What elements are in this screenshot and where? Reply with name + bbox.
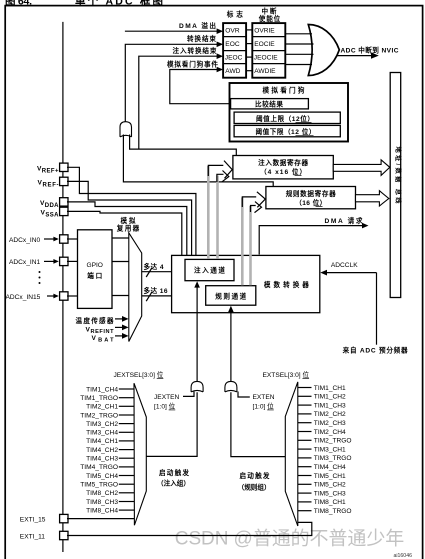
svg-text:TIM3_CH1: TIM3_CH1 [314, 446, 346, 453]
svg-text:TIM1_CH1: TIM1_CH1 [314, 385, 346, 392]
svg-text:TIM3_CH4: TIM3_CH4 [86, 430, 118, 437]
svg-text:中断: 中断 [262, 6, 277, 15]
svg-text:EXTI_11: EXTI_11 [20, 533, 46, 540]
svg-text:启动触发: 启动触发 [159, 468, 189, 477]
ADC interrupt to NVIC arrow [337, 55, 372, 57]
svg-text:EXTSEL[3:0] 位: EXTSEL[3:0] 位 [263, 370, 310, 379]
wire EOC (转换结束) from AWD-gate top to EOC flag [125, 44, 221, 121]
svg-text:TIM1_CH4: TIM1_CH4 [86, 386, 118, 393]
wires GPIO to analog mux [112, 237, 129, 239]
regular data register box 规则数据寄存器 (16 位) [266, 187, 356, 209]
svg-text:多达 16: 多达 16 [144, 286, 168, 295]
injected mux input ticks [119, 389, 134, 510]
wire VREF- to ADC [67, 181, 192, 255]
wire injected mux output to gate [146, 392, 197, 456]
svg-text:复用器: 复用器 [116, 223, 140, 232]
regular channels box 规则通道 [206, 286, 256, 306]
svg-text:TIM1_TRGO: TIM1_TRGO [80, 395, 118, 402]
svg-text:TIM2_CH2: TIM2_CH2 [314, 411, 346, 418]
wide arrow regular register to bus [356, 191, 389, 206]
svg-text:TIM2_CH4: TIM2_CH4 [314, 429, 346, 436]
svg-text:TIM1_CH3: TIM1_CH3 [314, 402, 346, 409]
svg-text:CSDN @普通的不普通少年: CSDN @普通的不普通少年 [175, 528, 404, 550]
wire DMA overrun to OVR [125, 30, 222, 32]
AWD guard gate [120, 122, 132, 137]
wires pins to GPIO [67, 238, 78, 240]
GPIO port box [78, 230, 113, 309]
svg-text:TIM5_CH4: TIM5_CH4 [86, 473, 118, 480]
svg-text:阈值上限（12位）: 阈值上限（12位） [256, 114, 314, 123]
svg-text:温度传感器: 温度传感器 [76, 316, 114, 325]
svg-text:规则通道: 规则通道 [215, 291, 246, 300]
svg-text:端口: 端口 [87, 271, 102, 280]
svg-text:TIM8_TRGO: TIM8_TRGO [314, 508, 352, 515]
svg-text:TIM2_CH1: TIM2_CH1 [86, 404, 118, 411]
svg-text:（16 位）: （16 位） [295, 198, 326, 207]
svg-text:使能位: 使能位 [258, 14, 281, 23]
JEXTEN enable stub [183, 392, 194, 397]
svg-text:注入通道: 注入通道 [194, 266, 225, 275]
svg-text:转换结束: 转换结束 [187, 34, 216, 43]
svg-text:JEXTSEL[3:0] 位: JEXTSEL[3:0] 位 [114, 370, 164, 379]
grey data path injected (wide grey wires) [207, 166, 210, 259]
svg-text:AWDIE: AWDIE [254, 68, 276, 75]
svg-text:EXTI_15: EXTI_15 [20, 516, 46, 523]
svg-text:ADCx_IN15: ADCx_IN15 [6, 294, 41, 301]
svg-text:JEXTEN: JEXTEN [154, 394, 180, 401]
injected data register box 注入数据寄存器 (4 x16 位) [233, 156, 333, 179]
wire gate to injected channels (start trigger) [196, 286, 198, 382]
svg-text:TIM2_CH3: TIM2_CH3 [314, 420, 346, 427]
svg-text:模拟: 模拟 [121, 216, 136, 225]
EXTEN enable stub [238, 392, 250, 398]
svg-text:TIM4_CH4: TIM4_CH4 [314, 464, 346, 471]
svg-text:TIM2_TRGO: TIM2_TRGO [80, 412, 118, 419]
analog watchdog box 模拟看门狗 [230, 83, 349, 142]
wire gate input from regular data register top [123, 135, 273, 187]
svg-text:JEOCIE: JEOCIE [254, 55, 278, 62]
threshold high box 阈值上限 (12位) [234, 112, 340, 123]
svg-text:规则数据寄存器: 规则数据寄存器 [286, 189, 336, 198]
svg-text:TIM8_CH1: TIM8_CH1 [314, 499, 346, 506]
svg-text:TIM5_CH1: TIM5_CH1 [314, 473, 346, 480]
wire gate input from injected data register top [130, 135, 237, 156]
svg-text:ai16046: ai16046 [394, 553, 413, 559]
regular trigger mux [285, 382, 298, 526]
svg-text:OVR: OVR [225, 27, 240, 34]
svg-text:单个 ADC 框图: 单个 ADC 框图 [75, 0, 163, 8]
svg-text:（规则组）: （规则组） [238, 482, 271, 491]
svg-text:TIM1_CH2: TIM1_CH2 [314, 394, 346, 401]
wire EXTI_11 to regular mux [67, 522, 312, 535]
threshold low box 阈值下限 (12 位) [234, 125, 340, 136]
svg-text:EOCIE: EOCIE [254, 41, 275, 48]
address/data bus 地址/数据总线 [390, 73, 401, 298]
svg-text:TIM8_CH3: TIM8_CH3 [86, 499, 118, 506]
svg-text:TIM2_TRGO: TIM2_TRGO [314, 438, 352, 445]
OR gate (interrupt) [308, 25, 339, 76]
svg-text:ADCx_IN0: ADCx_IN0 [9, 237, 40, 244]
svg-text:（注入组）: （注入组） [157, 478, 190, 487]
svg-text:注入转换结束: 注入转换结束 [173, 46, 217, 55]
regular trigger gate EXTEN [225, 381, 237, 392]
svg-text:图 64.: 图 64. [5, 0, 32, 8]
svg-text:EOC: EOC [225, 41, 240, 48]
svg-text:TIM4_CH3: TIM4_CH3 [86, 456, 118, 463]
svg-text:ADC 中断到 NVIC: ADC 中断到 NVIC [341, 46, 399, 55]
wire from ADC prescaler 来自 ADC 预分频器 [376, 273, 378, 345]
pin rail (left vertical line) [62, 22, 64, 552]
svg-text:TIM5_CH2: TIM5_CH2 [314, 482, 346, 489]
svg-text:来自 ADC 预分频器: 来自 ADC 预分频器 [342, 346, 408, 355]
svg-text:JEOC: JEOC [225, 55, 243, 62]
grey data path regular [241, 198, 244, 286]
svg-text:TIM5_TRGO: TIM5_TRGO [80, 482, 118, 489]
svg-text:TIM8_CH2: TIM8_CH2 [86, 490, 118, 497]
injected mux input labels [80, 386, 118, 514]
open arrow into regular data register [242, 197, 256, 207]
wire VSSA to ADC [67, 211, 182, 255]
svg-text:AWD: AWD [225, 68, 240, 75]
svg-text:EXTEN: EXTEN [253, 394, 275, 401]
svg-text:DMA 请求: DMA 请求 [325, 216, 363, 225]
dots between inputs [39, 271, 41, 273]
svg-text:比较结果: 比较结果 [255, 99, 283, 108]
svg-text:多达 4: 多达 4 [144, 262, 164, 271]
svg-text:ADCCLK: ADCCLK [331, 262, 358, 269]
svg-text:TIM4_TRGO: TIM4_TRGO [80, 464, 118, 471]
svg-text:ADCx_IN1: ADCx_IN1 [9, 259, 40, 266]
svg-text:[1:0] 位: [1:0] 位 [154, 402, 176, 411]
wire JEOC (注入转换结束) [139, 56, 222, 149]
svg-text:[1:0] 位: [1:0] 位 [253, 402, 275, 411]
connectors flags to IE [246, 29, 252, 31]
svg-text:TIM3_TRGO: TIM3_TRGO [314, 455, 352, 462]
regular mux input ticks [298, 388, 312, 511]
wire AWD event (模拟看门狗事件) [170, 70, 231, 104]
svg-text:启动触发: 启动触发 [240, 471, 270, 480]
compare result box 比较结果 [231, 99, 309, 109]
svg-text:DMA 溢出: DMA 溢出 [179, 21, 216, 30]
svg-text:TIM4_CH2: TIM4_CH2 [86, 447, 118, 454]
svg-text:OVRIE: OVRIE [254, 27, 275, 34]
svg-text:TIM8_CH4: TIM8_CH4 [86, 507, 118, 514]
svg-text:TIM4_CH1: TIM4_CH1 [86, 438, 118, 445]
svg-text:阈值下限（12 位）: 阈值下限（12 位） [256, 127, 316, 136]
open arrow into injected data register [208, 165, 223, 176]
wire EXTI_15 to injected mux [67, 518, 134, 520]
svg-text:模拟看门狗事件: 模拟看门狗事件 [167, 59, 218, 68]
wire VDDA to ADC [67, 202, 187, 256]
wire VREF+ to ADC [67, 167, 196, 255]
injected trigger gate JEXTEN [191, 381, 203, 392]
svg-text:模拟看门狗: 模拟看门狗 [263, 86, 305, 95]
injected channels box 注入通道 [185, 259, 234, 280]
wire regular mux output to gate [231, 392, 285, 456]
wide arrow injected register to bus [333, 160, 390, 176]
svg-text:（4 x16 位）: （4 x16 位） [260, 167, 306, 176]
regular mux input labels [314, 385, 352, 515]
svg-text:GPIO: GPIO [86, 262, 103, 269]
injected trigger mux [134, 383, 146, 525]
svg-text:注入数据寄存器: 注入数据寄存器 [258, 158, 308, 167]
ADC converter box 模数转换器 [172, 255, 320, 312]
svg-text:TIM3_CH2: TIM3_CH2 [86, 421, 118, 428]
wire gate to regular channels (start trigger) [230, 310, 232, 381]
svg-text:TIM5_CH3: TIM5_CH3 [314, 490, 346, 497]
